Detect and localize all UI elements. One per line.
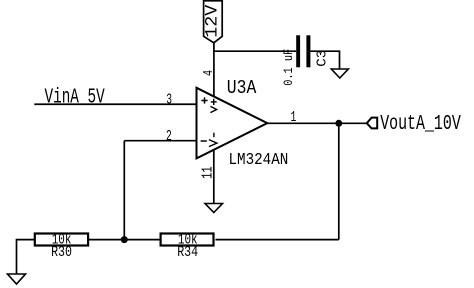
- svg-text:C3: C3: [315, 50, 330, 67]
- ground (capacitor): [331, 69, 348, 78]
- V+ marker: [210, 99, 216, 113]
- svg-text:U3A: U3A: [227, 77, 257, 99]
- svg-text:4: 4: [201, 70, 217, 76]
- svg-text:VoutA_10V: VoutA_10V: [380, 112, 461, 136]
- op-amp U3A: [197, 88, 268, 159]
- wire R30 left to gnd: [17, 240, 35, 274]
- junction output node: [335, 120, 342, 127]
- power flag +12V: [204, 1, 223, 43]
- svg-text:1: 1: [291, 109, 297, 126]
- svg-text:R30: R30: [51, 245, 72, 261]
- ground (R30): [8, 274, 26, 284]
- wire pin11 vertical: [213, 149, 215, 203]
- plus input marker: [201, 97, 207, 103]
- svg-text:12V: 12V: [203, 4, 223, 38]
- svg-text:3: 3: [166, 92, 172, 109]
- wire pin2 input: [124, 140, 196, 142]
- wire R34 right to output: [216, 239, 339, 241]
- svg-text:R34: R34: [177, 245, 198, 261]
- capacitor C3: [296, 35, 310, 67]
- svg-text:0.1 uF: 0.1 uF: [281, 49, 296, 86]
- resistor R30: [35, 234, 88, 246]
- wire feedback vertical: [123, 141, 125, 240]
- wire cap to gnd: [310, 51, 339, 69]
- svg-text:2: 2: [166, 128, 172, 145]
- wire pin3 input: [34, 103, 196, 105]
- port VoutA_10V: [367, 118, 377, 129]
- wire R30 to R34: [89, 239, 160, 241]
- wire pin1 output: [267, 122, 367, 124]
- wire to capacitor: [213, 50, 296, 52]
- svg-text:VinA_5V: VinA_5V: [45, 86, 105, 110]
- minus input marker: [201, 140, 207, 142]
- wire pin4 vertical: [213, 43, 215, 97]
- junction feedback node: [121, 236, 128, 243]
- V- marker: [209, 133, 217, 147]
- resistor R34: [161, 234, 214, 246]
- ground (op-amp): [205, 204, 223, 213]
- svg-text:LM324AN: LM324AN: [229, 150, 289, 169]
- wire output to feedback: [338, 123, 340, 239]
